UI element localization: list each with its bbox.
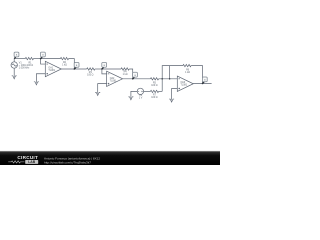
logo resistor squiggle [8,161,24,163]
resistor R7 [150,90,158,92]
wire OA1 + input to ground [36,74,45,82]
ground (V2) [128,97,133,100]
wire junction to OA2 inverting input [102,69,107,74]
svg-text:1.000 kHz: 1.000 kHz [19,68,30,70]
wire R3 to stage2 junction [95,68,102,70]
svg-text:http://circuitlab.com/c/7hq3fa: http://circuitlab.com/c/7hq3faby3k7 [44,160,91,164]
wire R6 to output corner stage3 [191,66,202,84]
node flag (OA2 output) [133,72,138,79]
label R4 [123,72,128,77]
wire R5 to summing node [159,78,178,80]
svg-text:1 kΩ: 1 kΩ [123,74,128,76]
wire OA2 + input to ground [98,84,107,93]
caption bar [0,151,220,165]
label OA2 [110,77,117,83]
wire vertical bus (summing node) [162,66,183,92]
wire OA1 output [61,68,86,70]
wire feedback top run stage2 [102,68,121,70]
wire R1 to node junction [34,58,41,60]
svg-text:TL081: TL081 [181,84,188,86]
wire feedback top run [41,58,61,60]
svg-text:1 kΩ: 1 kΩ [185,72,190,74]
label R6 [185,69,190,74]
label R7 [151,94,158,99]
wire R2 to output corner [69,59,75,69]
label R5 [151,82,158,87]
labels [19,62,190,100]
resistor R3 [87,68,95,70]
wire R4 to output corner stage2 [129,69,133,79]
wire feedback drop to inverting rail [169,66,171,79]
svg-text:1 V: 1 V [139,98,143,100]
resistor R4 [121,68,129,70]
voltage source V2 [137,88,143,94]
wire junction to op-amp inverting input [41,59,46,64]
wire OA2 output to R5 [123,78,151,80]
wire V2 minus to ground [131,91,137,97]
label V2 [139,95,143,100]
label V1 [19,63,30,70]
resistor R6 [183,64,191,66]
wire OA3 output [193,83,211,85]
op-amp OA3 [177,76,193,91]
svg-text:100 Ω: 100 Ω [151,97,158,99]
node flag (OA1 - node) [41,52,46,59]
resistor R5 [150,78,158,80]
junction dots [40,58,204,84]
svg-text:100 Ω: 100 Ω [151,85,158,87]
svg-text:LAB: LAB [28,160,36,164]
ground (OA2 + input) [95,93,100,96]
label OA3 [181,81,188,87]
op-amp OA2 [107,71,123,86]
wire V1 to R1 [14,58,25,60]
ground (below V1) [12,76,17,79]
ground (OA3 + input) [169,99,174,102]
op-amp OA1 [45,61,61,76]
voltage source V1 [11,59,17,76]
resistor R2 [60,57,68,59]
label R3 [87,72,94,77]
wire R7 to vertical bus [159,90,163,92]
svg-text:1 kΩ: 1 kΩ [62,64,67,66]
label R2 [62,62,67,67]
svg-text:100 Ω: 100 Ω [87,75,94,77]
node flag (V1 out) [14,52,19,59]
label R1 [27,62,34,67]
wire OA3 + input to ground [172,89,178,100]
node flag (OA3 output) [202,77,207,84]
node flag (OA2 - node) [102,63,107,70]
node flag (OA1 output) [74,63,79,70]
logo LAB box [25,160,38,164]
svg-text:TL081: TL081 [48,70,55,72]
wire V2 plus to R7 [144,90,151,92]
svg-text:TL081: TL081 [110,80,117,82]
label OA1 [48,66,55,72]
svg-text:100 Ω: 100 Ω [27,65,34,67]
resistor R1 [25,57,33,59]
ground (OA1 + input) [34,82,39,85]
